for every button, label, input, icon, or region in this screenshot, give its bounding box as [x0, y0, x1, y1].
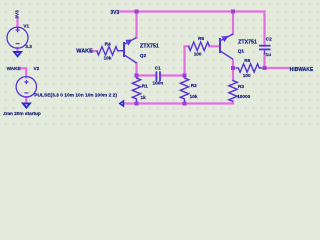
svg-text:Q1: Q1	[238, 49, 245, 54]
svg-text:ZTX751: ZTX751	[238, 40, 257, 46]
svg-text:3V3: 3V3	[110, 10, 119, 16]
svg-text:R6: R6	[244, 58, 250, 63]
svg-text:R5: R5	[198, 36, 204, 41]
svg-text:.tran 20m startup: .tran 20m startup	[3, 111, 41, 116]
svg-text:Q2: Q2	[140, 53, 147, 58]
svg-text:100: 100	[194, 51, 202, 56]
svg-text:PULSE(3.3 0 10m 10n 10n 100m 2: PULSE(3.3 0 10m 10n 10n 100m 2 2)	[34, 93, 117, 99]
svg-text:1k: 1k	[141, 95, 147, 100]
svg-text:10000: 10000	[237, 94, 250, 99]
svg-text:R1: R1	[142, 83, 148, 88]
svg-text:100: 100	[243, 73, 251, 78]
svg-text:R3: R3	[238, 84, 244, 89]
svg-text:10k: 10k	[104, 56, 112, 61]
svg-text:HIBWAKE: HIBWAKE	[290, 67, 314, 73]
svg-text:C1: C1	[155, 66, 161, 71]
svg-text:ZTX751: ZTX751	[140, 44, 159, 50]
svg-text:10k: 10k	[190, 94, 198, 99]
svg-text:3V3: 3V3	[15, 10, 20, 19]
svg-text:R2: R2	[191, 83, 197, 88]
svg-text:C2: C2	[266, 37, 272, 42]
svg-text:WAKE: WAKE	[7, 66, 21, 71]
svg-text:V1: V1	[23, 23, 29, 28]
svg-text:R4: R4	[105, 41, 111, 46]
svg-text:1u: 1u	[266, 52, 272, 57]
svg-text:WAKE: WAKE	[76, 49, 93, 55]
svg-text:V2: V2	[34, 66, 40, 71]
svg-text:3.3: 3.3	[25, 44, 32, 49]
svg-text:100n: 100n	[153, 81, 164, 86]
